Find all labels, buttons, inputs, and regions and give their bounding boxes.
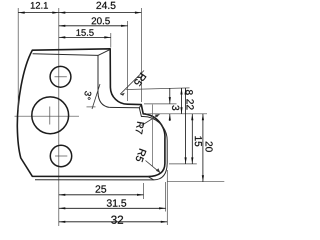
angle label 3 deg bbox=[85, 91, 92, 100]
extension line y88 right bbox=[126, 88, 189, 90]
extension line x167 bottom bbox=[166, 170, 168, 225]
dim text 15 bbox=[195, 136, 202, 146]
dim text 25 bbox=[96, 185, 107, 192]
dim line 8 bbox=[180, 88, 182, 114]
extension line x110 bbox=[110, 33, 112, 48]
part outline front contour bbox=[17, 49, 165, 177]
leader R5 top bbox=[120, 71, 144, 95]
dim text 22 bbox=[187, 99, 194, 109]
back bevel bottom edge bbox=[35, 179, 154, 181]
dim line 20 bbox=[202, 114, 204, 182]
dim line 3 step bbox=[169, 88, 171, 121]
extension line x127 bbox=[127, 21, 129, 101]
dim text 8 bbox=[186, 90, 193, 95]
extension line y114 right bbox=[146, 113, 207, 115]
small hole top center tick bbox=[55, 76, 67, 78]
hole centerline vertical bbox=[58, 8, 60, 226]
dim text 20 bbox=[206, 142, 213, 152]
leader R7 bbox=[142, 114, 160, 125]
extension line x165 bottom bbox=[165, 182, 167, 212]
back bevel step and bulge bbox=[139, 108, 167, 180]
big hole bbox=[32, 97, 69, 134]
extension line x141 bbox=[140, 8, 142, 102]
big hole centerline horizontal bbox=[15, 115, 80, 117]
dim line 15.5 bbox=[59, 36, 111, 38]
small hole bottom bbox=[50, 145, 71, 166]
dim text 12.1 bbox=[31, 2, 48, 9]
dim text 31.5 bbox=[107, 199, 126, 206]
back bevel right vertical bbox=[97, 55, 99, 92]
bevel corner diagonal top right bbox=[98, 49, 110, 55]
radius label R7 bbox=[136, 122, 144, 134]
part back bevel contour top edge bbox=[33, 54, 98, 56]
small hole bottom center tick bbox=[55, 155, 67, 157]
bevel shelf end diagonal bbox=[139, 105, 141, 108]
big hole center tick bbox=[49, 107, 51, 125]
dim line 25 bbox=[59, 194, 144, 196]
dim line 31.5 bbox=[59, 207, 166, 209]
dim text 3 bbox=[172, 105, 179, 110]
small hole top bbox=[50, 66, 71, 87]
extension line y104 right bbox=[144, 103, 177, 105]
radius label R5 bottom bbox=[136, 149, 146, 163]
dim line 15 bbox=[191, 114, 193, 164]
dim line 22 bbox=[185, 88, 187, 164]
extension line y164 right bbox=[169, 163, 197, 165]
bevel diagonal bottom right bbox=[148, 177, 154, 180]
back bevel fillet bbox=[98, 93, 109, 108]
leader R5 bottom bbox=[146, 161, 161, 173]
extension line x143 bottom bbox=[143, 183, 145, 199]
angle 3 deg indicator line bbox=[92, 84, 100, 109]
dim line 24.5 bbox=[59, 12, 142, 14]
angle 3 deg shelf extension bbox=[87, 106, 96, 108]
dim line 32 bbox=[59, 221, 168, 223]
dim text 15.5 bbox=[76, 29, 93, 36]
dim text 20.5 bbox=[92, 17, 110, 24]
dim text 24.5 bbox=[96, 2, 115, 9]
dim text 32 bbox=[111, 216, 123, 224]
thin vertical reference line x152 bbox=[152, 105, 154, 167]
back bevel shelf bbox=[109, 106, 139, 108]
extension line left x18 bbox=[17, 8, 19, 110]
dim line 12.1 bbox=[18, 12, 59, 14]
extension line y182 right bbox=[167, 181, 224, 183]
dim line 20.5 bbox=[59, 25, 128, 27]
radius label R5 top bbox=[134, 73, 146, 87]
